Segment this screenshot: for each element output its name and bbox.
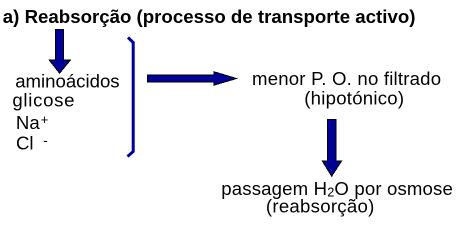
svg-text:glicose: glicose xyxy=(12,89,75,110)
bracket (right brace) xyxy=(128,38,134,157)
svg-text:+: + xyxy=(41,112,49,127)
arrow down A1 (from title to list) xyxy=(49,29,70,73)
arrow down A3 (to passagem) xyxy=(322,120,341,177)
svg-text:Cl: Cl xyxy=(16,132,34,153)
svg-text:(hipotónico): (hipotónico) xyxy=(304,88,404,109)
svg-text:-: - xyxy=(43,133,48,148)
svg-text:(reabsorção): (reabsorção) xyxy=(266,195,375,216)
svg-text:a) Reabsorção (processo de tra: a) Reabsorção (processo de transporte ac… xyxy=(3,6,416,27)
svg-text:Na: Na xyxy=(16,112,40,133)
svg-text:menor P. O. no filtrado: menor P. O. no filtrado xyxy=(252,68,441,89)
arrow right A2 (list to menor P.O.) xyxy=(148,72,237,85)
